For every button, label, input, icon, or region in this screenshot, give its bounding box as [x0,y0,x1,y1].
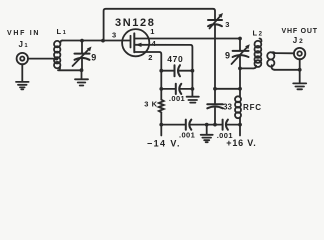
wire 3K to bus [160,112,162,124]
ground pin4 rail [187,97,199,103]
svg-text:.001: .001 [169,94,185,103]
transistor Q1 3N128 [122,29,149,56]
node C1 top [80,39,84,43]
capacitor 470pF bypass [161,65,192,76]
node -14V [159,123,163,127]
svg-text:VHF OUT: VHF OUT [282,28,318,35]
inductor output link [267,52,275,70]
node source-470 [159,69,163,73]
node drain tank top [238,37,242,41]
capacitor .001 +16V bypass [223,120,228,130]
svg-text:2: 2 [148,53,152,62]
capacitor .001 -14V bypass [186,120,192,130]
ground under J2 [293,83,306,89]
wire tank bottom rail [239,68,241,88]
wire 33pF to ground bus [214,108,216,125]
inductor L2 [253,39,261,69]
capacitor C2 9pF output tuning [232,39,250,69]
capacitor 33pF [207,104,223,108]
svg-text:1: 1 [150,27,154,36]
capacitor C1 9pF input tuning [73,41,92,71]
ground under J1 [16,82,29,90]
wire bus left segment [161,124,185,126]
wire +16V stub [239,125,241,136]
wire bus center segment [190,124,222,126]
svg-text:3: 3 [225,20,229,29]
ground under input tank [75,70,88,85]
wire neutralization rail down [214,25,216,104]
svg-text:VHF IN: VHF IN [7,30,40,37]
svg-text:+16 V.: +16 V. [226,138,256,148]
wire drain pin1 to output tank [134,38,240,40]
connector J1 [17,53,28,64]
wire link bottom to J2 ground [275,69,300,71]
node RFC top [238,87,242,91]
wire bus right segment [226,124,240,126]
node L1 tap [55,57,59,61]
node bus ground [205,123,209,127]
node L1 bottom [80,68,84,72]
capacitor .001 source bypass [161,84,192,94]
svg-text:RFC: RFC [243,103,262,112]
node 33pF bus [213,123,217,127]
wire L1 bottom to tank ground [59,69,82,71]
svg-text:470: 470 [167,54,183,64]
wire neutralization loop top [104,9,215,41]
wire J1 to L1 tap [28,58,58,60]
resistor 3K [159,100,164,113]
svg-text:9: 9 [225,51,230,61]
node tank bottom [238,67,242,71]
capacitor C3 3pF neutralizing [208,13,223,28]
wire pin2 source down [134,52,161,100]
wire J1 ground stem [21,64,23,81]
wire L1 top rail to gate [62,40,130,42]
wire neut rail to tank bottom [215,88,240,90]
inductor RFC [235,89,241,125]
wire link to J2 [275,52,294,54]
wire J2 ground stem [299,59,301,83]
node gnd-470 [191,69,195,73]
inductor L1 [54,41,62,71]
ground center bus [201,125,213,143]
svg-text:3 K: 3 K [144,100,157,109]
svg-text:33: 33 [223,102,232,111]
svg-text:.001: .001 [179,131,195,140]
node source-.001 [159,87,163,91]
connector J2 [294,48,305,59]
wire -14V stub [160,125,162,136]
svg-text:9: 9 [91,52,96,62]
node feedback takeoff [101,39,105,43]
svg-text:−14 V.: −14 V. [147,138,181,148]
node gnd-.001 [191,87,195,91]
wire pin4 to ground rail [134,45,192,97]
node J2 ground junction [298,68,302,72]
svg-text:3: 3 [112,30,116,39]
wire L2 bottom to tank rail [240,67,253,69]
node neutralization to tank [213,87,217,91]
node +16V [238,123,242,127]
